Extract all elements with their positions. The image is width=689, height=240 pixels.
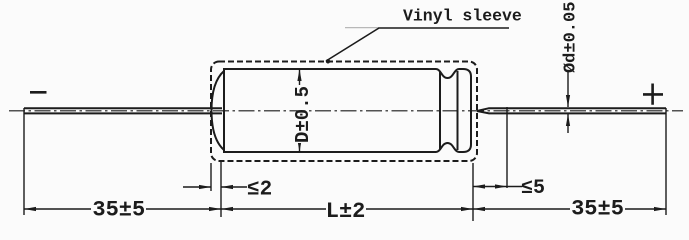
svg-text:35±5: 35±5 bbox=[92, 198, 145, 223]
svg-text:D±0.5: D±0.5 bbox=[292, 86, 314, 143]
svg-text:≤2: ≤2 bbox=[247, 179, 272, 202]
svg-text:Vinyl sleeve: Vinyl sleeve bbox=[403, 7, 522, 26]
svg-text:L±2: L±2 bbox=[326, 199, 366, 224]
svg-text:≤5: ≤5 bbox=[521, 177, 545, 200]
svg-text:35±5: 35±5 bbox=[571, 197, 624, 222]
svg-text:Ød±0.05: Ød±0.05 bbox=[561, 2, 580, 73]
